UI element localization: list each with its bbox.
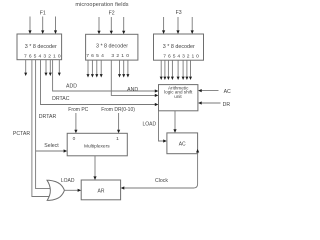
svg-text:From PC: From PC <box>68 107 88 113</box>
svg-text:Multiplexers: Multiplexers <box>84 144 110 150</box>
wire F1 bit 1 into decoder <box>41 17 44 35</box>
wire AND (U2 output 3) to ALU <box>111 60 158 97</box>
wire DRTAR (U1 output 5) down to OR gate <box>36 60 53 189</box>
wire U1 unused output stub x=46.0 <box>45 60 48 76</box>
wire U2 unused output stub x=123.7 <box>122 60 125 77</box>
wire multiplexers output to AR <box>93 156 96 180</box>
wire U3 output stub 6 <box>163 60 166 80</box>
svg-text:AND: AND <box>127 87 138 93</box>
svg-text:DR: DR <box>223 102 231 108</box>
svg-text:1: 1 <box>116 136 119 142</box>
wire U2 unused output stub x=101.2 <box>100 60 103 77</box>
svg-text:AC: AC <box>179 142 186 148</box>
wire U1 unused output stub x=50.3 <box>49 60 52 76</box>
wire F3 bit 0 into decoder <box>162 17 165 34</box>
wire Select branch from DRTAR to multiplexers <box>36 149 68 152</box>
wire U3 output stub 5 <box>167 60 170 80</box>
svg-text:AR: AR <box>98 188 105 194</box>
wire U3 output stub 3 <box>177 60 180 80</box>
wire U3 output stub 7 <box>160 60 163 80</box>
wire F2 bit 0 into decoder <box>97 17 100 34</box>
register AR <box>81 180 120 200</box>
svg-text:F3: F3 <box>176 10 182 16</box>
svg-text:7 6 5 4 3 2 1 0: 7 6 5 4 3 2 1 0 <box>24 54 61 60</box>
multiplexers MUX1 <box>67 133 127 156</box>
wire U1 unused output stub x=59.3 <box>58 60 61 76</box>
wire F2 bit 2 into decoder <box>122 17 125 34</box>
decoder U2 (F2) 3x8 decoder <box>86 34 138 60</box>
wire U3 output stub 4 <box>171 60 174 80</box>
wire U2 unused output stub x=92.4 <box>91 60 94 77</box>
svg-text:LOAD: LOAD <box>142 122 156 128</box>
register AC <box>167 133 198 154</box>
svg-text:3 * 8 decoder: 3 * 8 decoder <box>163 44 195 50</box>
svg-text:microoperation fields: microoperation fields <box>75 2 128 8</box>
wire U2 unused output stub x=127.9 <box>126 60 129 77</box>
wire OR gate output to AR load <box>64 189 81 192</box>
svg-text:LOAD: LOAD <box>61 178 75 184</box>
wire DRTAC (U1 output 4) to ALU <box>41 60 159 106</box>
svg-text:0: 0 <box>73 136 76 142</box>
wire LOAD of AC <box>159 111 167 143</box>
wire U2 unused output stub x=96.8 <box>95 60 98 77</box>
wire ALU output to AC register <box>173 111 176 133</box>
wire U2 unused output stub x=119.5 <box>118 60 121 77</box>
svg-text:Clock: Clock <box>155 178 168 184</box>
svg-text:PCTAR: PCTAR <box>13 131 30 137</box>
wire F3 bit 1 into decoder <box>176 17 179 34</box>
wire From DR into multiplexers input 1 <box>117 113 120 133</box>
wire U2 unused output stub x=88.0 <box>87 60 90 77</box>
ALU U4: arithmetic logic and shift unit <box>159 85 198 111</box>
svg-text:ADD: ADD <box>66 84 77 90</box>
svg-text:DRTAR: DRTAR <box>39 114 57 120</box>
svg-text:DRTAC: DRTAC <box>52 96 70 102</box>
wire F3 bit 2 into decoder <box>191 17 194 34</box>
wire U3 output stub 0 <box>189 60 192 80</box>
wire U3 output stub 2 <box>182 60 185 80</box>
wire Clock to AR and AC <box>121 149 200 190</box>
svg-text:F1: F1 <box>40 10 46 16</box>
wire F1 bit 2 into decoder <box>54 17 57 35</box>
decoder U3 (F3) 3x8 decoder <box>154 34 204 60</box>
wire From AC into ALU <box>198 89 218 92</box>
svg-text:unit: unit <box>174 94 182 99</box>
wire From PC into multiplexers input 0 <box>74 113 77 133</box>
wire U1 unused output stub x=25.7 <box>24 60 27 76</box>
svg-text:3 * 8 decoder: 3 * 8 decoder <box>96 44 128 50</box>
wire ADD (U1 output 1) to ALU <box>53 60 159 93</box>
or-gate G1 (load AR) <box>47 180 64 200</box>
wire F1 bit 0 into decoder <box>28 17 31 35</box>
wire PCTAR (U1 output 6) down to OR gate <box>32 60 50 197</box>
svg-text:3 2 1 0: 3 2 1 0 <box>111 53 129 59</box>
svg-text:Select: Select <box>44 143 59 149</box>
svg-text:7 6 5 4 3 2 1 0: 7 6 5 4 3 2 1 0 <box>163 54 199 60</box>
svg-text:AC: AC <box>224 89 231 95</box>
decoder U1 (F1) 3x8 decoder <box>17 34 62 60</box>
wire U3 output stub 1 <box>185 60 188 80</box>
svg-text:7 6 5 4: 7 6 5 4 <box>86 53 104 59</box>
wire F2 bit 1 into decoder <box>110 17 113 34</box>
wire From DR into ALU <box>198 101 220 104</box>
svg-text:3 * 8 decoder: 3 * 8 decoder <box>25 44 57 50</box>
svg-text:F2: F2 <box>109 10 115 16</box>
svg-text:From DR(0-10): From DR(0-10) <box>101 107 135 113</box>
